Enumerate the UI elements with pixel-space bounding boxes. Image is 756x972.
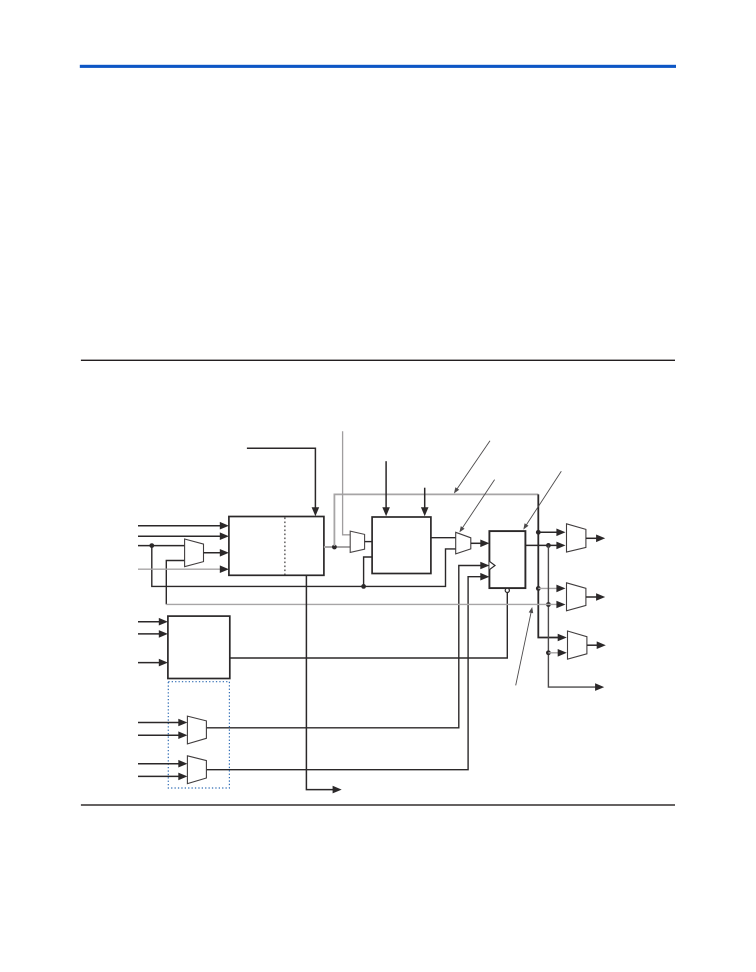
arrowhead mux out2 lower input bbox=[556, 601, 565, 609]
mux M3 (register data select) bbox=[456, 532, 471, 554]
wire: data1 input bbox=[138, 525, 221, 527]
wire: data4 input (gray) bbox=[138, 568, 221, 570]
arrowhead labclkena1 bbox=[382, 507, 390, 516]
LUT block bbox=[229, 517, 324, 576]
leader line: to register data mux bbox=[461, 480, 495, 530]
LAB-wide signals dotted box bbox=[168, 682, 229, 788]
leader line: to local interconnect line bbox=[516, 610, 532, 686]
wire: U1 output bbox=[586, 537, 597, 539]
leader line: to comb riser bbox=[456, 441, 490, 491]
wire: chip-wide reset input 2 bbox=[138, 775, 180, 777]
wire: branch to out1 mux top bbox=[538, 531, 557, 533]
wire: labclkena input bbox=[138, 662, 160, 664]
output mux U2 bbox=[567, 583, 586, 611]
wire: branch to out3 mux bottom (gray) bbox=[548, 652, 558, 654]
arrowhead M4 in1 bbox=[178, 719, 187, 727]
arrowhead labclk2 bbox=[159, 630, 168, 638]
register clock wedge bbox=[489, 561, 495, 569]
wire: register output to mux column bbox=[525, 544, 557, 546]
arrowhead register ena bbox=[480, 573, 489, 581]
sync load and clear logic block bbox=[372, 517, 431, 574]
arrowhead data3 bbox=[220, 549, 229, 557]
arrowhead labclk1 bbox=[159, 618, 168, 626]
wire: labclkena1 drop into sync block bbox=[385, 461, 387, 508]
node: register output branch bbox=[546, 543, 551, 548]
clock enable mux M4 bbox=[187, 716, 206, 744]
wire: register column down to local routing bbox=[548, 545, 596, 687]
node: feedback to sync-load branch bbox=[361, 584, 366, 589]
arrowhead row/column out2 bbox=[596, 593, 605, 601]
LUT dotted divider bbox=[284, 518, 286, 575]
wire: data2 input bbox=[138, 535, 221, 537]
wire: mux M1 output to LUT bbox=[204, 552, 222, 554]
mux M1 (input select) bbox=[185, 539, 204, 567]
wire: labclk2 input bbox=[138, 633, 160, 635]
node: comb to out2 branch bbox=[536, 586, 541, 591]
arrowhead into LUT top bbox=[312, 507, 320, 516]
arrowhead M5 in2 bbox=[178, 773, 187, 781]
register CLRN bubble bbox=[505, 588, 509, 592]
arrowhead data2 bbox=[220, 532, 229, 540]
output mux U3 bbox=[568, 631, 587, 659]
wire: data3 input to mux bbox=[138, 545, 185, 547]
output mux U1 bbox=[567, 524, 586, 552]
section divider rule (upper) bbox=[81, 360, 675, 361]
arrowhead M5 in1 bbox=[178, 760, 187, 768]
wire: local interconnect line (gray, long) bbox=[166, 603, 557, 605]
wire: mux M3 output into register bbox=[471, 542, 482, 544]
arrowhead mux out3 upper input bbox=[558, 634, 567, 642]
wire: LUT combinational riser (gray) bbox=[334, 494, 538, 546]
clear mux M5 bbox=[187, 756, 206, 784]
arrowhead M4 in2 bbox=[178, 731, 187, 739]
wire: clear mux output up to register ena bbox=[206, 577, 481, 770]
arrowhead labclkena2 bbox=[421, 507, 429, 516]
arrowhead row/column out1 bbox=[596, 535, 605, 543]
wire: chip-wide reset input 1 bbox=[138, 763, 180, 765]
arrowhead mux out1 upper input bbox=[556, 529, 565, 537]
arrowhead register chain output bbox=[333, 786, 342, 794]
wire: register feedback down-right to sync mux bbox=[152, 546, 456, 587]
wire: U3 output bbox=[587, 644, 598, 646]
wire: carry-in (gray vertical) into mux bbox=[343, 431, 351, 535]
mux M2 (carry select) bbox=[350, 531, 364, 552]
wire: sync block output to register mux bbox=[431, 537, 456, 539]
section divider rule (bottom) bbox=[81, 804, 675, 805]
wire: feedback branch up into sync block bbox=[364, 557, 373, 586]
wire: register chain input to LUT top bbox=[247, 448, 316, 508]
wire: combinational column bbox=[538, 494, 559, 637]
register block bbox=[489, 531, 525, 588]
wire: mux M2 output into sync block bbox=[365, 541, 373, 543]
arrowhead labclkena bbox=[159, 659, 168, 667]
wire: branch to out2 mux top (gray) bbox=[538, 587, 557, 589]
wire: LUT output (gray) to carry mux bbox=[324, 546, 350, 548]
arrowhead register D bbox=[480, 540, 489, 548]
node: data3/feedback junction bbox=[149, 543, 154, 548]
node: register to out2 lower branch bbox=[546, 602, 551, 607]
wire: clock enable mux output up to register clock bbox=[206, 566, 481, 728]
header blue rule bbox=[80, 65, 676, 68]
wire: labclk1 input bbox=[138, 621, 160, 623]
arrowhead register clock bbox=[480, 562, 489, 570]
wire: labclkena2 drop into sync block bbox=[424, 488, 426, 509]
arrowhead data4 bbox=[220, 565, 229, 573]
node: LUT output junction bbox=[332, 545, 337, 550]
wire: mux bottom feed from local line bbox=[166, 561, 184, 605]
clock enable select block bbox=[168, 616, 230, 678]
wire: labclr2 input bbox=[138, 734, 180, 736]
wire: register chain output drop bbox=[306, 575, 333, 789]
arrowhead local routing output bbox=[595, 683, 604, 691]
node: comb to out1 branch bbox=[536, 530, 541, 535]
leader line: to register top bbox=[525, 471, 561, 527]
arrowhead mux out1 lower input bbox=[556, 542, 565, 550]
wire: U2 output bbox=[586, 596, 597, 598]
arrowhead mux out2 upper input bbox=[556, 585, 565, 593]
arrowhead mux out3 lower input bbox=[558, 649, 567, 657]
arrowhead row/column out3 bbox=[597, 641, 606, 649]
wire: labclr1 input bbox=[138, 722, 180, 724]
wire: clock select block output to register CLRN bbox=[230, 593, 508, 658]
node: register to out3 lower branch bbox=[546, 650, 551, 655]
arrowhead data1 bbox=[220, 522, 229, 530]
